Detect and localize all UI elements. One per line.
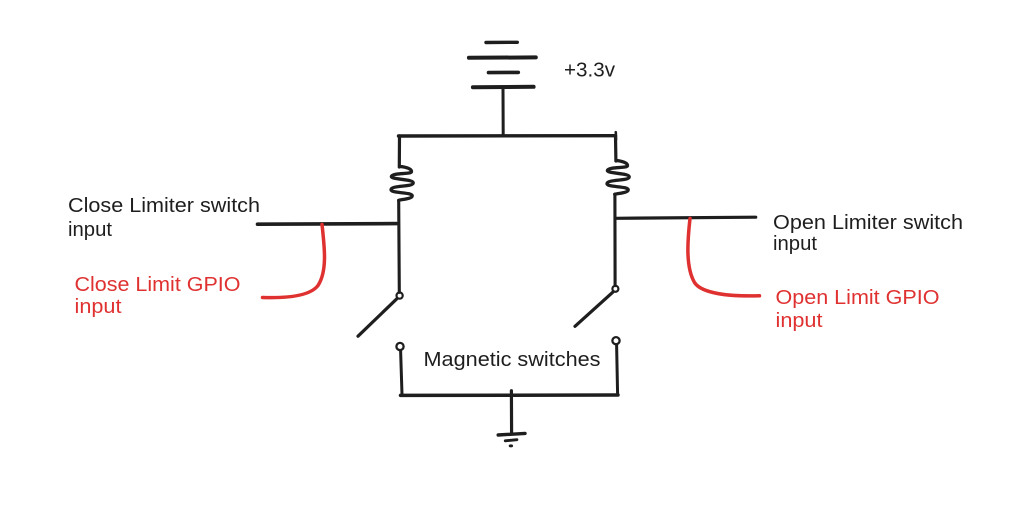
svg-text:+3.3v: +3.3v (564, 59, 615, 81)
svg-text:Open Limiter switch: Open Limiter switch (773, 212, 963, 234)
svg-text:Close Limit GPIO: Close Limit GPIO (75, 274, 241, 296)
svg-text:input: input (68, 219, 112, 241)
svg-text:Close Limiter switch: Close Limiter switch (68, 195, 260, 217)
svg-text:input: input (773, 233, 817, 255)
svg-text:Open Limit GPIO: Open Limit GPIO (776, 287, 940, 309)
svg-text:input: input (75, 296, 122, 318)
svg-text:input: input (776, 310, 823, 332)
svg-text:Magnetic switches: Magnetic switches (424, 349, 601, 371)
